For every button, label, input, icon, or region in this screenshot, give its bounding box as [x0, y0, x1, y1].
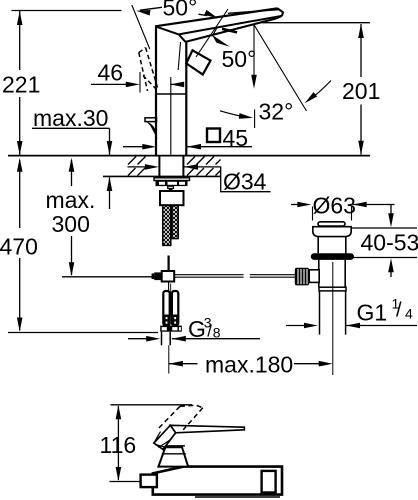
svg-text:4: 4 — [405, 305, 413, 321]
faucet body seam line — [156, 93, 186, 95]
bottom view lever blade — [170, 425, 244, 433]
50 deg left construction line — [132, 5, 150, 49]
32 deg construction diagonal — [254, 24, 307, 111]
svg-text:201: 201 — [342, 78, 380, 104]
svg-text:116: 116 — [100, 432, 137, 458]
washer under counter — [154, 178, 190, 181]
bottom view dashed raised lever — [159, 405, 203, 430]
mounting flange — [156, 181, 188, 187]
mounting screw — [168, 186, 174, 188]
dimension 221 line — [19, 11, 21, 70]
svg-text:46: 46 — [98, 59, 124, 85]
drain body — [318, 260, 320, 287]
svg-text:50°: 50° — [222, 46, 257, 72]
dimension 201 line — [360, 24, 362, 77]
dimension 470 line — [19, 160, 21, 228]
lever top edge — [155, 8, 277, 26]
shank right side — [182, 156, 184, 178]
50 deg top left leader — [140, 7, 162, 10]
bottom view lever cap line — [161, 445, 185, 447]
32 deg pointer arrow — [220, 111, 247, 118]
shank housing box — [160, 191, 184, 205]
bottom view neck — [158, 447, 188, 466]
horizontal actuating rod — [174, 274, 243, 276]
dimension 201 top reference line — [262, 22, 370, 24]
drain knob stem — [309, 270, 319, 283]
dimension max.30 leader — [32, 127, 110, 129]
rod tee block — [162, 271, 175, 282]
drain neck — [317, 237, 319, 254]
svg-text:8: 8 — [213, 325, 221, 341]
drain o-ring seal — [311, 253, 354, 260]
supply hose left — [163, 205, 171, 245]
svg-text:G1: G1 — [357, 300, 388, 326]
svg-text:45: 45 — [223, 125, 249, 151]
drain pop-up plug — [318, 222, 345, 226]
dashed lever in left position — [139, 48, 158, 91]
handle tilted square — [186, 50, 210, 74]
lever tip face — [278, 8, 284, 16]
oblique construction line through handle — [196, 9, 228, 57]
dimension max.300 bottom reference line — [62, 276, 162, 278]
vertical reference line at pivot — [253, 24, 255, 84]
dimension max.300 line — [71, 160, 73, 186]
lever second top line — [228, 10, 279, 14]
dimension 470 bottom reference line — [8, 332, 158, 334]
svg-text:max.: max. — [46, 187, 96, 213]
max.30 lower arrow under counter — [109, 178, 111, 210]
lever underside edge 1 — [179, 16, 282, 35]
bottom view spout square — [262, 471, 276, 493]
spout outlet tab — [145, 118, 157, 122]
svg-text:50°: 50° — [163, 0, 198, 21]
dimension Ø34 leader bend — [184, 167, 271, 192]
mounting plate — [160, 326, 182, 332]
drain tailpipe — [319, 291, 321, 335]
svg-text:/: / — [396, 300, 402, 322]
faucet centerline lower — [168, 345, 170, 373]
dimension 40-53 reference lines — [351, 227, 417, 229]
countertop surface line — [8, 155, 370, 157]
stud centerline — [170, 284, 172, 316]
supply pipe below plate — [161, 332, 163, 346]
dimension G1 1/4 line — [286, 325, 304, 327]
pop-up rod vertical — [168, 256, 170, 272]
spout outlet wedge — [146, 122, 157, 139]
bottom view body box — [153, 467, 282, 495]
body top corner edges — [155, 26, 179, 34]
dimension 221 top reference line — [12, 10, 122, 12]
50 deg angle arc marks — [222, 29, 237, 33]
Ø63 extension ticks — [312, 207, 314, 221]
dimension G3/8 line — [128, 338, 147, 340]
svg-text:max.180: max.180 — [205, 351, 293, 377]
bottom view lever front tip — [154, 425, 176, 449]
bottom view aerator cap — [141, 475, 157, 488]
dimension Ø63 line — [291, 204, 298, 206]
threaded stud right — [172, 291, 178, 326]
dimension Ø34 arrows at shank — [128, 166, 147, 168]
dimension 40-53 line — [390, 205, 392, 214]
svg-text:Ø63: Ø63 — [313, 193, 356, 219]
svg-text:max.30: max.30 — [33, 105, 108, 131]
supply hose right — [172, 205, 178, 238]
countertop bottom line — [103, 175, 221, 177]
50 deg top right leader — [199, 14, 208, 15]
svg-text:/: / — [207, 322, 212, 341]
dimension max.180 line — [169, 363, 198, 365]
handle hidden edge line — [178, 42, 180, 70]
svg-text:221: 221 — [2, 72, 40, 98]
drain collar — [319, 287, 346, 291]
svg-text:32°: 32° — [259, 98, 294, 124]
faucet body left edge — [155, 26, 157, 155]
threaded stud left — [163, 291, 169, 326]
drain centerline — [332, 262, 334, 375]
faucet body centerline — [170, 77, 172, 155]
rod below tee — [168, 282, 170, 291]
svg-text:300: 300 — [52, 211, 90, 237]
arc arrow onto diagonal — [309, 81, 332, 101]
svg-text:470: 470 — [0, 234, 38, 260]
drain flange — [313, 227, 351, 237]
rod left fitting — [152, 273, 155, 279]
svg-text:Ø34: Ø34 — [223, 169, 267, 195]
dimension 116 line — [117, 406, 119, 480]
dimension square-45 line — [123, 146, 143, 148]
countertop hatching — [128, 157, 221, 176]
drain knurled knob — [295, 268, 309, 286]
shank left side — [158, 156, 160, 178]
svg-text:40-53: 40-53 — [361, 229, 418, 255]
bottom view 116 top reference line — [111, 404, 193, 406]
faucet body right edge — [185, 42, 187, 155]
lever underside edge 2 — [186, 19, 277, 42]
square symbol for 45 — [207, 129, 220, 143]
dimension 46 extension line — [139, 72, 141, 93]
dimension 46 line — [91, 83, 127, 85]
bottom view 116 bottom reference line — [110, 481, 141, 483]
